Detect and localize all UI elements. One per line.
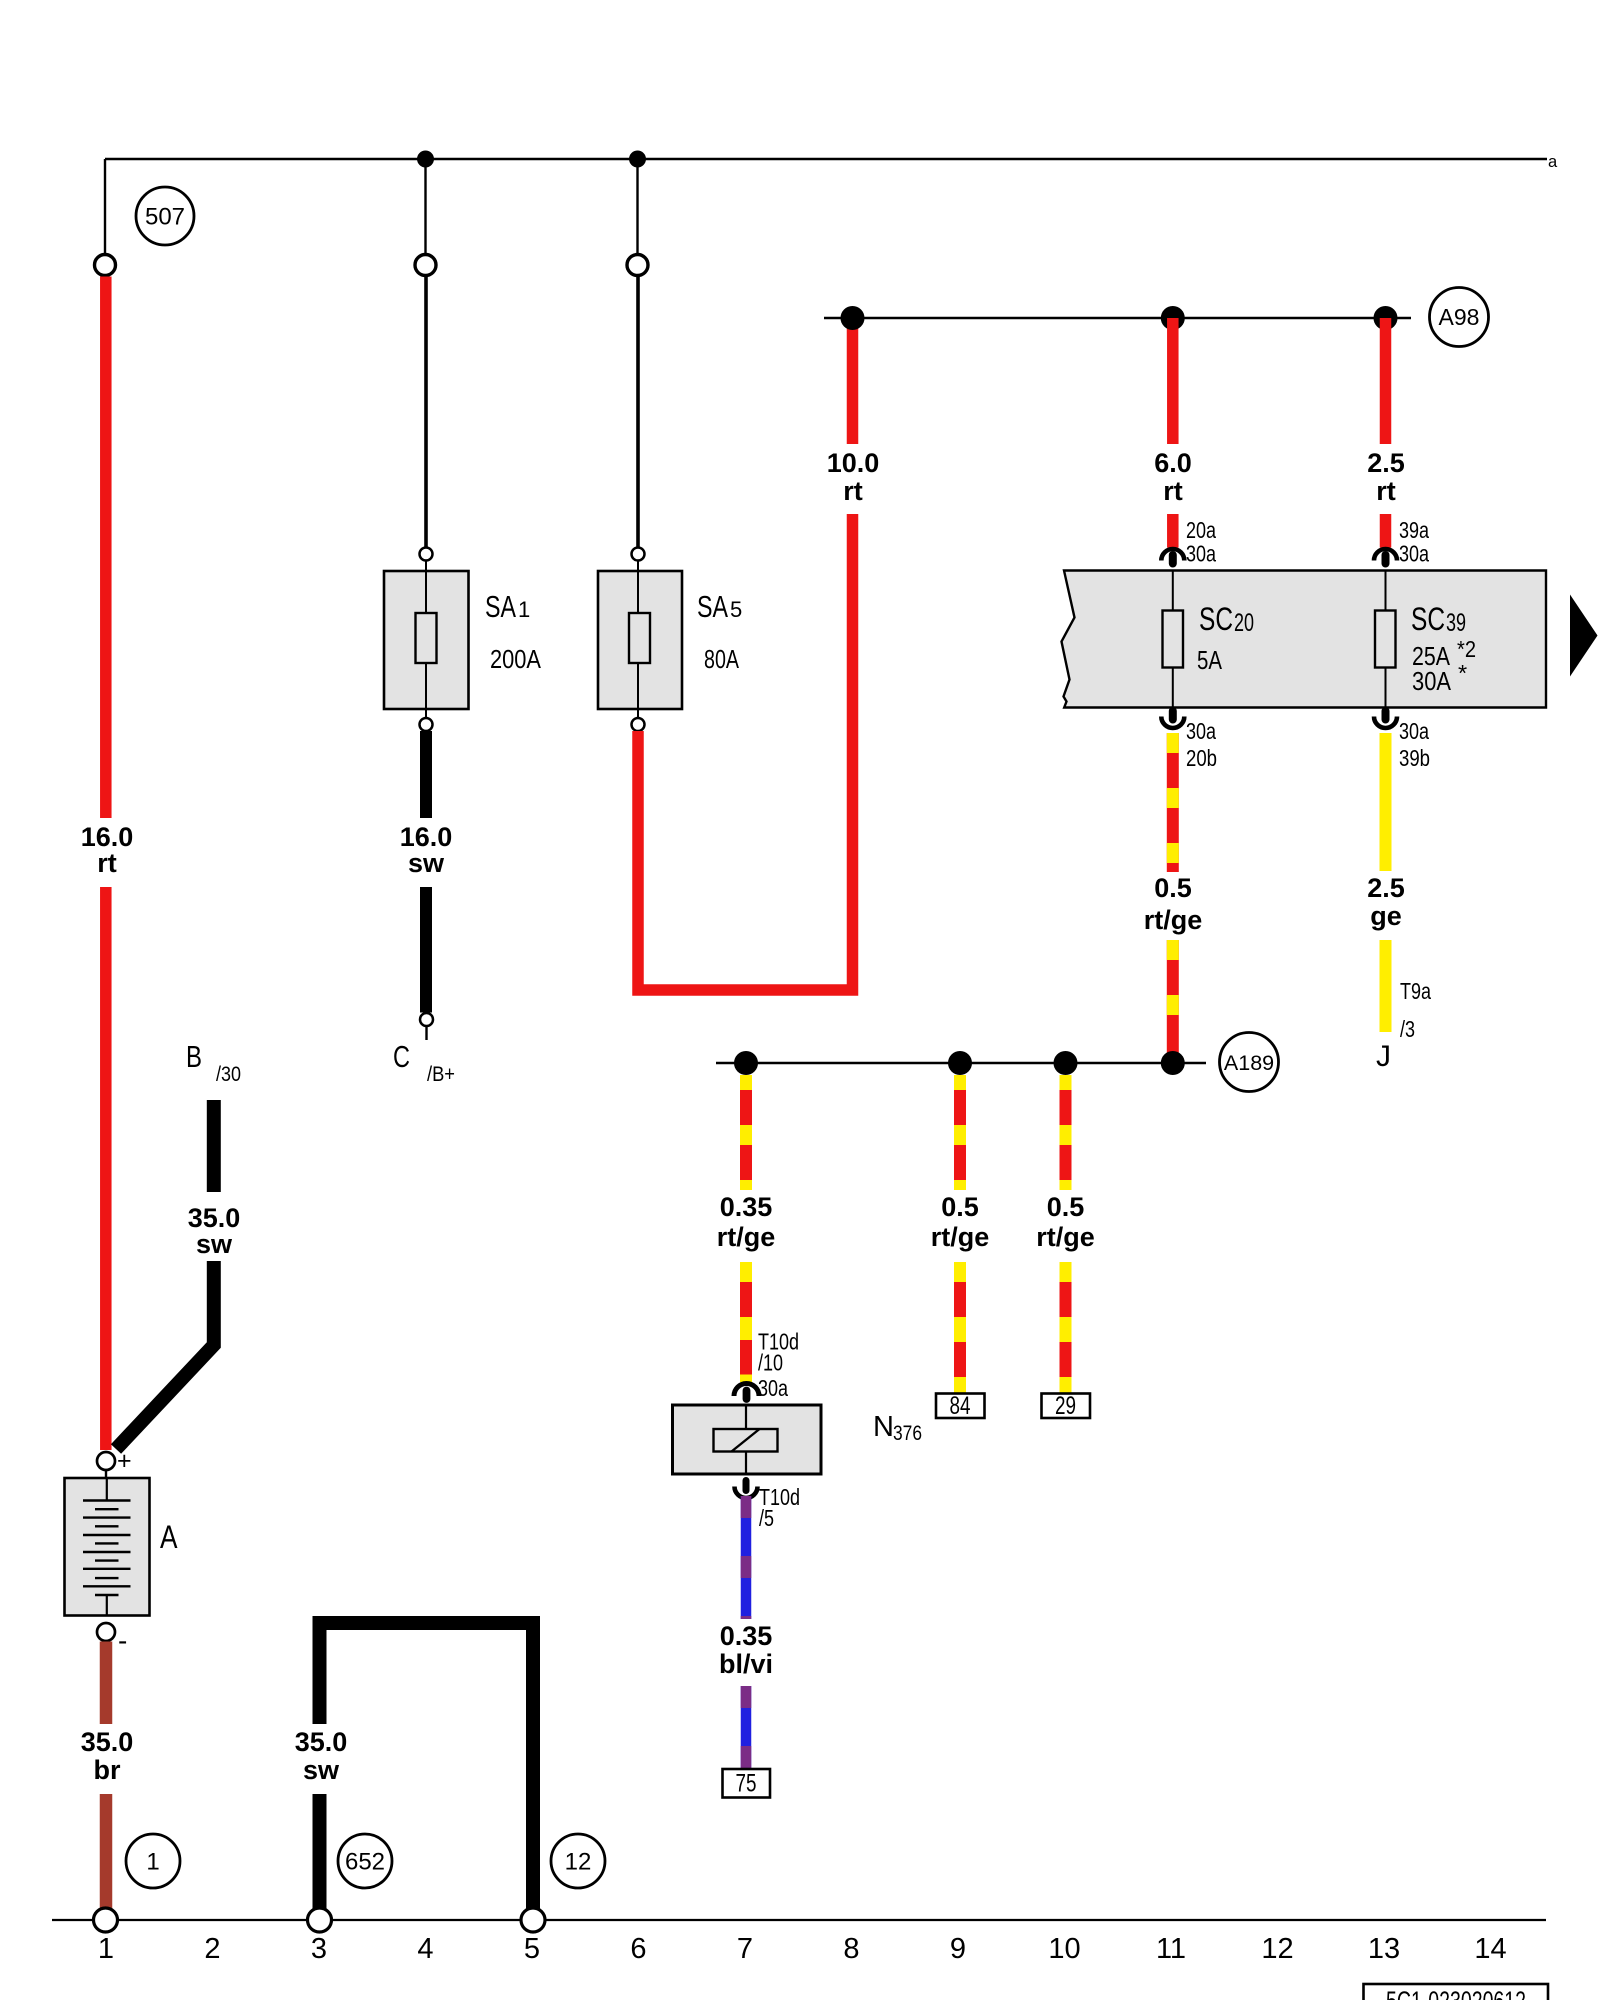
- svg-text:5: 5: [524, 1933, 540, 1965]
- svg-text:35.0: 35.0: [81, 1727, 134, 1757]
- svg-text:11: 11: [1156, 1933, 1186, 1965]
- battery - terminal: [97, 1623, 115, 1641]
- svg-text:376: 376: [893, 1422, 922, 1445]
- svg-text:br: br: [94, 1755, 121, 1785]
- svg-text:/B+: /B+: [427, 1063, 455, 1086]
- wire 35.0 sw (ground strap 3 to 5): [320, 1623, 534, 1909]
- wire: drop to battery terminal: [104, 159, 106, 255]
- svg-text:0.5: 0.5: [941, 1192, 979, 1222]
- battery + terminal: [97, 1452, 115, 1470]
- label circle A189: [1220, 1033, 1279, 1092]
- svg-text:0.5: 0.5: [1154, 873, 1192, 903]
- svg-text:30a: 30a: [1186, 718, 1217, 744]
- svg-text:/5: /5: [759, 1505, 774, 1531]
- svg-text:SA: SA: [697, 589, 728, 624]
- svg-text:+: +: [117, 1447, 132, 1475]
- drawing number box: [1364, 1984, 1549, 2000]
- svg-text:A189: A189: [1224, 1051, 1274, 1075]
- svg-text:0.35: 0.35: [720, 1621, 773, 1651]
- svg-text:13: 13: [1368, 1933, 1400, 1965]
- svg-text:a: a: [1548, 153, 1558, 171]
- label circle 652: [338, 1834, 392, 1888]
- svg-text:80A: 80A: [704, 644, 739, 674]
- pin circle SA5 bottom: [637, 709, 639, 718]
- svg-text:/30: /30: [216, 1063, 241, 1086]
- svg-text:5C1-023020612: 5C1-023020612: [1386, 1986, 1526, 2000]
- svg-text:*2: *2: [1457, 636, 1476, 662]
- svg-text:0.5: 0.5: [1047, 1192, 1085, 1222]
- svg-text:B: B: [186, 1039, 202, 1074]
- ground point 1: [94, 1908, 118, 1932]
- junction dot: [734, 1051, 758, 1075]
- connector N376 bottom: [743, 1481, 750, 1491]
- wire 10.0 rt from SA5 to A98 (lower run): [638, 514, 853, 990]
- svg-text:8: 8: [843, 1933, 859, 1965]
- svg-text:3: 3: [311, 1933, 327, 1965]
- wire 2.5 ge (SC39 out): [1380, 733, 1392, 871]
- svg-text:507: 507: [145, 204, 185, 231]
- svg-text:rt/ge: rt/ge: [1036, 1222, 1095, 1252]
- svg-text:bl/vi: bl/vi: [719, 1649, 773, 1679]
- svg-text:T9a: T9a: [1400, 978, 1432, 1004]
- svg-text:39: 39: [1446, 609, 1466, 637]
- svg-text:sw: sw: [303, 1755, 340, 1785]
- wire 35.0 br (battery - to ground 1): [100, 1642, 113, 1725]
- ground point 5: [521, 1908, 545, 1932]
- wire 6.0 rt: [1167, 318, 1179, 444]
- connector SC39 bottom: [1382, 711, 1390, 720]
- wire to terminal: [636, 159, 638, 255]
- svg-text:14: 14: [1474, 1933, 1506, 1965]
- svg-text:10: 10: [1048, 1933, 1080, 1965]
- terminal circle C: [420, 1013, 433, 1026]
- relay N376 box: [673, 1405, 822, 1474]
- svg-text:SA: SA: [485, 589, 516, 624]
- connector SC20 bottom: [1169, 711, 1177, 720]
- label circle A98: [1430, 288, 1489, 347]
- svg-text:rt/ge: rt/ge: [931, 1222, 990, 1252]
- terminal box 75: [723, 1769, 771, 1798]
- svg-text:5A: 5A: [1197, 645, 1223, 675]
- svg-text:sw: sw: [408, 848, 445, 878]
- svg-text:9: 9: [950, 1933, 966, 1965]
- svg-text:10.0: 10.0: [827, 448, 880, 478]
- fuse SC39: [1385, 571, 1387, 611]
- terminal circle SA1: [415, 255, 436, 276]
- svg-text:5: 5: [730, 597, 742, 622]
- wire 0.5 rt/ge (SC20 out): [1167, 733, 1179, 872]
- fuse SA5 box: [598, 571, 682, 709]
- ground reference line: [52, 1919, 1546, 1921]
- fuse SA1 box: [384, 571, 469, 709]
- svg-text:30a: 30a: [758, 1375, 789, 1401]
- svg-text:200A: 200A: [490, 644, 542, 674]
- svg-text:sw: sw: [196, 1229, 233, 1259]
- svg-text:2.5: 2.5: [1367, 448, 1405, 478]
- terminal circle SA5: [627, 255, 648, 276]
- wire to terminal: [424, 159, 426, 255]
- svg-text:39a: 39a: [1399, 517, 1430, 543]
- wire 0.35 bl/vi: [741, 1496, 752, 1619]
- wire 0.35 rt/ge (to N376): [740, 1075, 752, 1190]
- svg-text:J: J: [1376, 1040, 1391, 1073]
- svg-text:2.5: 2.5: [1367, 873, 1405, 903]
- svg-text:1: 1: [518, 597, 530, 622]
- svg-text:/10: /10: [758, 1350, 783, 1376]
- svg-text:7: 7: [737, 1933, 753, 1965]
- svg-text:A: A: [160, 1519, 178, 1555]
- svg-text:30a: 30a: [1399, 541, 1430, 567]
- wire 0.5 rt/ge (to 84): [954, 1075, 966, 1190]
- junction dot: [1161, 1051, 1185, 1075]
- label circle 507: [136, 187, 194, 245]
- connector SC39 top: [1374, 549, 1397, 561]
- wire to fuse SA1: [424, 276, 428, 548]
- bus A189: [716, 1062, 1206, 1064]
- svg-text:4: 4: [417, 1933, 433, 1965]
- terminal box 84: [936, 1394, 985, 1419]
- connector SC20 top: [1161, 549, 1184, 561]
- wire 35.0 sw (B to battery +): [207, 1100, 221, 1192]
- svg-text:2: 2: [204, 1933, 220, 1965]
- pin circle SA1 top: [420, 548, 433, 561]
- pin circle SA5 top: [632, 548, 645, 561]
- junction dot: [1374, 306, 1398, 330]
- svg-text:rt: rt: [1376, 476, 1396, 506]
- fuse panel SC (fuse holder): [1062, 571, 1547, 708]
- svg-text:rt/ge: rt/ge: [717, 1222, 776, 1252]
- svg-text:rt: rt: [97, 848, 117, 878]
- wire to fuse SA5: [636, 276, 640, 548]
- svg-text:30A: 30A: [1412, 666, 1452, 696]
- junction dot: [841, 306, 865, 330]
- label circle 12: [551, 1834, 605, 1888]
- svg-text:/3: /3: [1400, 1016, 1415, 1042]
- fuse SC20: [1172, 571, 1174, 611]
- svg-text:rt: rt: [1163, 476, 1183, 506]
- wire 16.0 sw: [420, 731, 432, 818]
- svg-text:20a: 20a: [1186, 517, 1217, 543]
- svg-text:C: C: [393, 1039, 410, 1074]
- wire 0.5 rt/ge (to 29): [1060, 1075, 1072, 1190]
- connector N376 top: [734, 1384, 759, 1397]
- label circle 1: [126, 1834, 180, 1888]
- junction dot: [1161, 306, 1185, 330]
- ground point 3: [308, 1908, 332, 1932]
- junction dot: [1054, 1051, 1078, 1075]
- svg-text:-: -: [118, 1625, 127, 1656]
- svg-text:39b: 39b: [1399, 745, 1430, 771]
- svg-text:20: 20: [1234, 609, 1254, 637]
- svg-text:rt/ge: rt/ge: [1144, 905, 1203, 935]
- svg-text:ge: ge: [1370, 901, 1402, 931]
- svg-text:30a: 30a: [1186, 541, 1217, 567]
- svg-text:12: 12: [1261, 1933, 1293, 1965]
- track numbers: [98, 1933, 1507, 1965]
- svg-text:1: 1: [146, 1849, 159, 1876]
- svg-text:75: 75: [736, 1770, 757, 1798]
- junction dot: [948, 1051, 972, 1075]
- svg-text:SC: SC: [1411, 601, 1445, 637]
- svg-text:30a: 30a: [1399, 718, 1430, 744]
- svg-text:20b: 20b: [1186, 745, 1217, 771]
- svg-text:652: 652: [345, 1849, 385, 1876]
- junction dot SA1 branch: [417, 151, 434, 168]
- svg-text:1: 1: [98, 1933, 114, 1965]
- wire 2.5 rt: [1380, 318, 1392, 444]
- terminal circle 30 (left): [95, 255, 116, 276]
- battery A: [65, 1478, 150, 1616]
- wire 16.0 rt (battery +): [100, 277, 112, 819]
- wire 10.0 rt upper stub: [847, 318, 859, 444]
- svg-text:84: 84: [950, 1392, 971, 1420]
- continuation arrow: [1570, 595, 1598, 677]
- svg-text:SC: SC: [1199, 601, 1233, 637]
- svg-text:6.0: 6.0: [1154, 448, 1192, 478]
- svg-text:*: *: [1458, 660, 1467, 686]
- svg-text:29: 29: [1055, 1392, 1076, 1420]
- pin circle SA1 bottom: [425, 709, 427, 718]
- wire: top supply bus a: [105, 158, 1547, 160]
- relay contact symbol: [714, 1429, 778, 1452]
- terminal box 29: [1042, 1394, 1091, 1419]
- svg-text:A98: A98: [1439, 304, 1480, 330]
- svg-text:12: 12: [565, 1849, 592, 1876]
- svg-text:N: N: [873, 1411, 894, 1443]
- svg-text:rt: rt: [843, 476, 863, 506]
- bus A98: [824, 317, 1411, 319]
- svg-text:35.0: 35.0: [295, 1727, 348, 1757]
- svg-text:0.35: 0.35: [720, 1192, 773, 1222]
- junction dot SA5 branch: [629, 151, 646, 168]
- svg-text:6: 6: [630, 1933, 646, 1965]
